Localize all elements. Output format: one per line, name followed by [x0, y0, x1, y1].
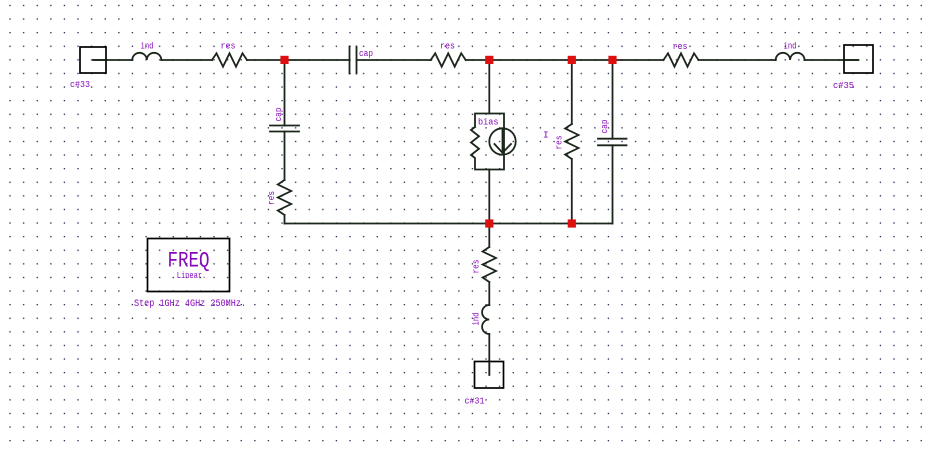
junction node	[280, 56, 288, 64]
wire	[247, 59, 350, 61]
wire	[488, 334, 490, 375]
junction node	[485, 219, 493, 227]
inductor L2	[776, 53, 805, 60]
wire	[93, 59, 132, 61]
svg-text:c#33: c#33	[70, 79, 90, 90]
bias source U1	[471, 114, 516, 170]
resistor R6	[483, 247, 496, 282]
port c#35	[844, 45, 873, 73]
resistor R5	[565, 60, 578, 224]
svg-text:c#35: c#35	[833, 80, 854, 91]
wire	[488, 170, 490, 224]
svg-text:res: res	[555, 136, 565, 150]
wire	[488, 60, 490, 114]
capacitor C1	[350, 47, 357, 74]
resistor R2	[431, 53, 466, 66]
resistor R3	[664, 53, 699, 66]
inductor L3	[482, 305, 489, 334]
port c#31	[475, 362, 504, 389]
svg-text:c#31: c#31	[465, 396, 485, 407]
wire	[285, 223, 613, 225]
junction node	[485, 56, 493, 64]
wire	[488, 224, 490, 248]
wire	[466, 59, 664, 61]
svg-text:Linear.: Linear.	[177, 270, 207, 281]
wire	[284, 60, 286, 126]
port c#33	[80, 47, 106, 73]
FREQ box	[148, 239, 230, 292]
svg-text:ind: ind	[141, 41, 154, 52]
svg-text:cap: cap	[274, 108, 284, 122]
resistor R1	[212, 53, 247, 66]
junction node	[568, 219, 576, 227]
svg-text:res: res	[221, 41, 236, 52]
svg-text:res: res	[267, 191, 277, 205]
svg-text:Step 1GHz 4GHz 250MHz.: Step 1GHz 4GHz 250MHz.	[134, 298, 246, 310]
svg-text:res: res	[440, 41, 455, 52]
svg-text:ind: ind	[472, 313, 482, 326]
svg-text:ind: ind	[784, 41, 797, 52]
wire	[488, 282, 490, 305]
inductor L1	[132, 53, 161, 60]
junction node	[608, 56, 616, 64]
svg-text:res: res	[472, 260, 482, 274]
wire	[805, 59, 859, 61]
wire	[284, 132, 286, 181]
wire	[357, 59, 431, 61]
resistor R4	[278, 180, 291, 215]
wire	[161, 59, 212, 61]
junction node	[568, 56, 576, 64]
svg-text:res: res	[673, 41, 688, 52]
wire	[284, 215, 286, 224]
svg-text:bias: bias	[478, 118, 499, 128]
capacitor C2	[270, 126, 299, 132]
capacitor C3	[598, 60, 627, 224]
svg-text:cap: cap	[600, 120, 610, 134]
wire	[699, 59, 776, 61]
svg-text:I: I	[543, 130, 549, 141]
svg-text:cap: cap	[359, 48, 373, 59]
